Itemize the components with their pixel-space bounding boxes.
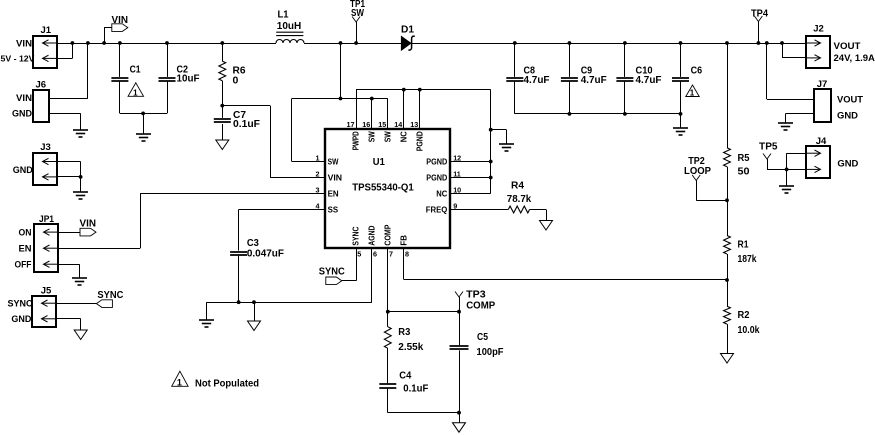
- test point TP3: [455, 292, 463, 298]
- junction pin13: [418, 88, 422, 92]
- connector J4: [806, 146, 830, 178]
- svg-text:14: 14: [394, 120, 402, 129]
- wire SW to U1 pin15: [387, 99, 389, 130]
- svg-text:100pF: 100pF: [477, 346, 505, 358]
- wire PGND top horizontal: [356, 89, 491, 91]
- diode D1: [401, 36, 411, 50]
- connector J6: [33, 90, 49, 122]
- wire JP1 pin2 to EN: [57, 248, 140, 250]
- svg-text:PGND: PGND: [426, 158, 447, 167]
- svg-text:2: 2: [316, 170, 320, 179]
- svg-text:C1: C1: [130, 64, 141, 76]
- svg-text:11: 11: [453, 170, 461, 179]
- svg-text:PGND: PGND: [415, 131, 424, 151]
- svg-text:D1: D1: [401, 24, 414, 36]
- svg-text:17: 17: [347, 120, 355, 129]
- wire J7 pin2 to ground: [785, 113, 814, 115]
- junction SW net: [339, 97, 343, 101]
- svg-text:R5: R5: [738, 152, 750, 164]
- junction C5 bottom: [457, 411, 461, 415]
- wire VIN node to U1 pin2: [222, 105, 270, 107]
- wire JP1 pin3 to ground: [57, 264, 79, 266]
- svg-text:R1: R1: [738, 239, 749, 251]
- wire SW to U1 pin1: [291, 99, 293, 162]
- net flag SYNC at U1: [326, 277, 342, 285]
- wire AGND to triangle ground: [254, 302, 256, 321]
- wire FB to divider: [404, 279, 727, 281]
- svg-text:13: 13: [410, 120, 418, 129]
- connector J7: [814, 89, 831, 122]
- svg-text:FREQ: FREQ: [426, 206, 448, 215]
- svg-text:EN: EN: [19, 243, 32, 254]
- svg-text:SYNC: SYNC: [97, 290, 123, 301]
- svg-text:SYNC: SYNC: [352, 226, 361, 245]
- wire U1 pin5 SYNC down: [356, 248, 358, 281]
- wire J3 pin2: [57, 176, 80, 178]
- junction AGND tri gnd: [252, 300, 256, 304]
- svg-text:VIN: VIN: [328, 174, 343, 183]
- svg-text:SYNC: SYNC: [8, 299, 33, 310]
- ground at J3: [73, 192, 88, 199]
- junction pin11: [489, 176, 493, 180]
- ground at J4: [779, 186, 794, 193]
- wire R1 to R2: [727, 254, 729, 306]
- resistor R6: [222, 43, 224, 61]
- junction pin14: [402, 88, 406, 92]
- wire J3 pin1: [57, 161, 80, 163]
- junction J1 pin2: [71, 41, 75, 45]
- wire AGND horizontal: [206, 302, 371, 304]
- svg-text:LOOP: LOOP: [684, 166, 711, 177]
- wire VIN rail left of L1: [57, 43, 276, 45]
- svg-text:TP4: TP4: [751, 8, 768, 19]
- wire VIN flag stem: [104, 27, 106, 43]
- connector J1: [33, 36, 57, 68]
- net flag VIN top: [112, 24, 128, 32]
- svg-text:COMP: COMP: [466, 300, 495, 311]
- svg-text:1: 1: [690, 89, 695, 98]
- svg-text:VIN: VIN: [16, 38, 32, 49]
- wire SW net vertical from rail: [340, 43, 342, 99]
- wire R5 to R1: [727, 167, 729, 236]
- wire J5 pin2 to ground: [57, 318, 81, 320]
- svg-text:16: 16: [362, 120, 370, 129]
- test point TP4: [758, 22, 760, 44]
- wire AGND to bar ground: [206, 302, 208, 320]
- wire U1 pin11: [450, 177, 491, 179]
- svg-text:SW: SW: [351, 8, 364, 19]
- wire U1 pin13 PGND up: [419, 90, 421, 130]
- svg-text:1: 1: [316, 154, 320, 163]
- svg-text:Not Populated: Not Populated: [195, 379, 259, 390]
- svg-text:FB: FB: [399, 235, 408, 246]
- svg-text:10uF: 10uF: [177, 73, 201, 85]
- inductor L1: [276, 32, 304, 43]
- svg-text:SW: SW: [328, 158, 339, 167]
- svg-text:TP5: TP5: [759, 141, 778, 152]
- resistor R1: [724, 236, 731, 255]
- wire to COMP ground: [459, 413, 461, 423]
- capacitor C5: [450, 346, 469, 349]
- net flag SYNC at J5: [96, 300, 112, 308]
- svg-text:50: 50: [738, 166, 750, 178]
- resistor R4: [508, 206, 529, 213]
- capacitor C9: [569, 43, 571, 77]
- svg-text:VIN: VIN: [16, 93, 32, 104]
- svg-text:VIN: VIN: [112, 15, 129, 26]
- wire rail to J2 pin2: [782, 43, 784, 58]
- ground triangle at COMP: [453, 423, 466, 433]
- junction VIN flag: [102, 41, 106, 45]
- svg-text:JP1: JP1: [39, 214, 55, 225]
- svg-text:2.55k: 2.55k: [398, 341, 423, 353]
- wire J6 pin1 to rail: [49, 98, 88, 100]
- ground at AGND: [199, 320, 214, 327]
- wire J3 vertical: [80, 162, 82, 193]
- wire U1 pin14 NC up: [403, 90, 405, 130]
- svg-text:5V - 12V: 5V - 12V: [1, 54, 35, 64]
- junction COMP node: [386, 310, 390, 314]
- wire R2 to ground: [727, 324, 729, 353]
- junction FB node: [725, 278, 729, 282]
- junction SW pin16: [370, 97, 374, 101]
- svg-text:C6: C6: [691, 65, 703, 77]
- wire C4 to C5 bottom: [388, 412, 459, 414]
- capacitor C8: [514, 43, 516, 77]
- wire output cap ground bus: [515, 113, 681, 115]
- svg-text:J7: J7: [817, 79, 828, 90]
- svg-text:8: 8: [405, 249, 409, 258]
- wire U1 pin8 FB down: [403, 248, 405, 280]
- wire U1 pin17 PWPD up: [356, 90, 358, 130]
- svg-text:C4: C4: [399, 370, 411, 382]
- capacitor C7: [222, 106, 224, 118]
- svg-text:VOUT: VOUT: [834, 41, 861, 52]
- ground at C1 C2: [136, 134, 151, 141]
- svg-text:7: 7: [389, 249, 393, 258]
- junction C1C2 gnd: [141, 112, 145, 116]
- junction J3: [79, 175, 83, 179]
- svg-text:J6: J6: [36, 80, 47, 91]
- svg-text:L1: L1: [278, 9, 289, 21]
- wire rail to J7: [766, 43, 768, 99]
- svg-text:187k: 187k: [738, 253, 757, 265]
- ground triangle at R2: [721, 354, 734, 364]
- connector J3: [33, 153, 57, 185]
- svg-text:1: 1: [177, 377, 182, 387]
- svg-text:R3: R3: [398, 326, 410, 338]
- not-populated triangle at C6: [686, 85, 700, 97]
- resistor R2: [724, 306, 731, 324]
- capacitor C6: [680, 43, 682, 77]
- capacitor C10: [624, 43, 626, 77]
- svg-text:C5: C5: [477, 331, 488, 343]
- junction J4 ground: [785, 168, 789, 172]
- svg-text:EN: EN: [328, 190, 339, 199]
- wire R4 to ground: [530, 209, 546, 211]
- svg-text:GND: GND: [11, 314, 31, 325]
- op-amp U1 TPS55340-Q1 IC body: [325, 129, 450, 248]
- test point TP2: [692, 175, 700, 181]
- ground at output caps: [673, 128, 688, 135]
- svg-text:NC: NC: [436, 190, 447, 199]
- not-populated triangle at C1: [128, 83, 144, 97]
- wire SW net horizontal: [292, 98, 388, 100]
- wire U1 pin10: [450, 193, 491, 195]
- wire U1 pin4 SS: [239, 209, 326, 211]
- svg-text:J4: J4: [816, 136, 827, 147]
- wire to J4 ground: [786, 169, 788, 186]
- capacitor C4: [387, 348, 389, 383]
- svg-text:SW: SW: [383, 131, 392, 142]
- svg-text:GND: GND: [837, 111, 858, 122]
- wire J6 pin2 to ground: [49, 113, 81, 115]
- wire C1 C2 ground bus: [120, 113, 167, 115]
- svg-text:R2: R2: [738, 309, 750, 321]
- svg-text:R4: R4: [511, 180, 524, 192]
- not-populated legend triangle: [172, 371, 188, 386]
- junction J6 VIN: [86, 41, 90, 45]
- svg-text:PWPD: PWPD: [352, 131, 361, 150]
- ground at J7: [778, 123, 793, 130]
- svg-text:TP3: TP3: [466, 289, 486, 300]
- svg-text:4.7uF: 4.7uF: [524, 74, 551, 86]
- svg-text:15: 15: [378, 120, 386, 129]
- svg-text:GND: GND: [837, 159, 858, 170]
- connector J2: [806, 36, 830, 68]
- ground at PGND: [499, 144, 514, 151]
- junction C10 gnd: [623, 112, 627, 116]
- svg-text:J1: J1: [41, 25, 52, 36]
- ground triangle at R4: [540, 221, 553, 231]
- ground triangle at C7: [216, 140, 229, 150]
- wire SW/VOUT rail right of L1: [304, 43, 806, 45]
- svg-text:4.7uF: 4.7uF: [581, 74, 608, 86]
- svg-text:0.1uF: 0.1uF: [233, 118, 261, 130]
- wire J5 pin1 to SYNC flag: [57, 303, 97, 305]
- svg-text:0.047uF: 0.047uF: [247, 247, 285, 259]
- junction PGND gnd tap: [489, 128, 493, 132]
- ground at J6: [73, 130, 88, 137]
- wire J1 pin2 to rail: [57, 58, 73, 60]
- svg-text:SYNC: SYNC: [319, 266, 345, 277]
- net flag VIN at JP1: [80, 228, 96, 236]
- svg-text:AGND: AGND: [367, 225, 376, 245]
- test point TP5: [763, 154, 771, 160]
- svg-text:ON: ON: [19, 227, 32, 238]
- junction C5 top: [457, 310, 461, 314]
- svg-text:TPS55340-Q1: TPS55340-Q1: [352, 181, 414, 193]
- wire JP1 pin1 to VIN flag: [57, 232, 80, 234]
- wire SW to U1 pin16: [371, 99, 373, 130]
- svg-text:PGND: PGND: [426, 174, 447, 183]
- junction C9 gnd: [568, 112, 572, 116]
- svg-text:10.0k: 10.0k: [738, 324, 760, 336]
- wire to PGND ground: [491, 129, 507, 131]
- svg-text:VOUT: VOUT: [837, 94, 863, 105]
- wire PGND right vertical: [490, 90, 492, 194]
- wire J4 pin1 loop: [787, 153, 806, 155]
- svg-text:NC: NC: [399, 131, 408, 142]
- junction R6 C7: [220, 104, 224, 108]
- junction C3 gnd: [237, 300, 241, 304]
- junction TP2 node: [725, 198, 729, 202]
- svg-text:5: 5: [357, 249, 361, 258]
- wire FREQ to R4: [450, 209, 508, 211]
- svg-text:J5: J5: [41, 286, 52, 297]
- ground triangle at J5: [74, 330, 87, 340]
- wire COMP to C5: [388, 311, 459, 313]
- capacitor C3: [238, 210, 240, 251]
- wire U1 pin7 COMP down: [387, 248, 389, 327]
- svg-text:SS: SS: [328, 206, 339, 215]
- svg-text:COMP: COMP: [383, 224, 392, 246]
- svg-text:10: 10: [453, 186, 461, 195]
- svg-text:OFF: OFF: [15, 259, 32, 270]
- capacitor C1: [119, 43, 121, 77]
- svg-text:10uH: 10uH: [277, 20, 302, 32]
- svg-text:6: 6: [373, 249, 377, 258]
- wire bus to ground: [680, 114, 682, 128]
- junction C6 gnd: [679, 112, 683, 116]
- resistor R5: [727, 43, 729, 148]
- junction pin12: [489, 160, 493, 164]
- ground triangle at AGND: [248, 321, 261, 331]
- connector J5: [32, 296, 56, 327]
- wire to J7 pin1: [767, 99, 814, 101]
- svg-text:0.1uF: 0.1uF: [403, 382, 429, 394]
- capacitor C2: [167, 43, 169, 77]
- svg-text:GND: GND: [12, 109, 32, 120]
- wire U1 pin12: [450, 161, 491, 163]
- svg-text:24V, 1.9A: 24V, 1.9A: [834, 53, 875, 64]
- connector JP1: [34, 224, 58, 272]
- resistor R3: [384, 327, 391, 349]
- svg-text:0: 0: [233, 74, 239, 86]
- svg-text:VIN: VIN: [80, 219, 97, 230]
- svg-text:12: 12: [453, 154, 461, 163]
- svg-text:J3: J3: [40, 142, 51, 153]
- svg-text:U1: U1: [373, 156, 385, 168]
- test point TP1: [356, 22, 358, 43]
- svg-text:1: 1: [133, 88, 138, 97]
- svg-text:4.7uF: 4.7uF: [636, 74, 663, 86]
- svg-text:SW: SW: [367, 131, 376, 142]
- svg-text:GND: GND: [13, 165, 33, 176]
- ground at JP1: [72, 278, 87, 285]
- wire U1 pin6 AGND down: [371, 248, 373, 302]
- svg-text:78.7k: 78.7k: [507, 193, 532, 205]
- svg-text:J2: J2: [813, 24, 824, 35]
